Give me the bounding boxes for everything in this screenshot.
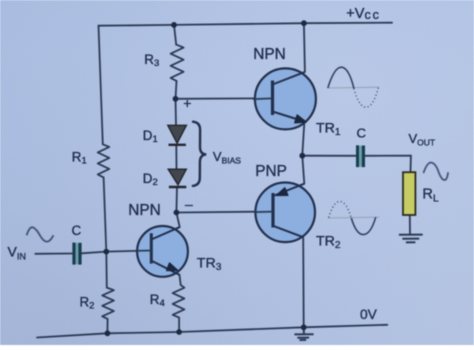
svg-text:+Vcc: +Vcc: [346, 6, 380, 22]
wire TR2 base: [176, 212, 273, 213]
node bottom rail / TR2-ground: [301, 324, 307, 330]
wire R4 to bottom rail: [178, 318, 180, 332]
wire top rail +Vcc: [99, 23, 393, 26]
node bottom rail / R2: [105, 330, 111, 336]
sine wave input: [27, 227, 54, 241]
wire TR1 emitter to output junction: [302, 123, 304, 156]
resistor R4: [173, 285, 185, 318]
sine wave TR2 (solid half): [351, 217, 375, 234]
svg-text:NPN: NPN: [253, 46, 285, 63]
wire bottom rail 0V: [37, 325, 387, 338]
transistor TR2 (PNP): [254, 183, 315, 243]
wire Vout corner down to RL: [410, 156, 412, 173]
ground (bottom rail): [294, 327, 313, 340]
node - (diodes / TR3 collector / TR2 base): [174, 210, 180, 216]
wire capacitor C to Vout corner: [365, 155, 411, 157]
diode D2: [168, 169, 186, 187]
wire R3 top lead: [174, 25, 176, 45]
wire R1 to input junction: [104, 177, 107, 251]
resistor RL (load): [403, 172, 415, 215]
wire left vertical (R1/R2 branch): [99, 26, 103, 145]
wire input line VIN to capacitor: [35, 253, 72, 255]
node + (R3 / diodes / TR1 base): [173, 96, 179, 102]
resistor R3: [171, 45, 184, 81]
node output junction: [299, 153, 305, 159]
wire diode chain column: [176, 99, 178, 213]
svg-text:C: C: [357, 126, 367, 141]
wire TR3 collector to - junction: [176, 213, 179, 228]
wire capacitor to input junction: [82, 252, 107, 254]
wire output junction to capacitor C: [302, 155, 356, 157]
resistor R2: [102, 288, 114, 319]
wire TR1 base: [176, 97, 273, 100]
sine wave TR1 (dotted half): [354, 88, 378, 108]
node top rail / TR1 collector: [301, 20, 307, 26]
node top rail / R3: [171, 22, 177, 28]
wire R2 to bottom rail: [106, 319, 108, 333]
wire TR1 collector to top rail: [304, 23, 305, 72]
capacitor C (input): [72, 243, 81, 265]
sine wave TR2 (axis): [328, 216, 379, 219]
transistor TR1 (NPN): [253, 68, 316, 129]
sine wave Vout: [423, 163, 448, 180]
svg-text:–: –: [185, 196, 193, 212]
node input junction: [103, 249, 109, 255]
wire TR3 base: [106, 251, 151, 252]
wire TR2 emitter to output junction: [302, 156, 304, 184]
wire RL to ground: [409, 215, 411, 234]
node bottom rail / R4: [176, 329, 182, 335]
sine wave TR1 (solid half): [328, 67, 354, 88]
svg-text:PNP: PNP: [255, 163, 287, 180]
transistor TR3 (NPN): [135, 226, 188, 277]
wire TR2 collector to bottom rail: [302, 237, 305, 327]
wire R3 to + junction: [176, 81, 177, 99]
diode D1: [168, 125, 187, 145]
resistor R1: [98, 144, 110, 177]
svg-text:NPN: NPN: [128, 202, 161, 219]
sine wave TR2 (dotted half): [329, 201, 352, 218]
svg-text:0V: 0V: [360, 307, 378, 322]
wire TR3 emitter to R4: [180, 275, 181, 285]
wire input junction down to R2: [105, 252, 108, 288]
svg-text:C: C: [72, 223, 82, 238]
svg-text:+: +: [183, 95, 191, 111]
brace VBIAS: [193, 122, 207, 186]
capacitor C (output): [356, 145, 365, 167]
ground (below RL): [399, 235, 423, 243]
sine wave TR1 (axis): [328, 86, 379, 89]
